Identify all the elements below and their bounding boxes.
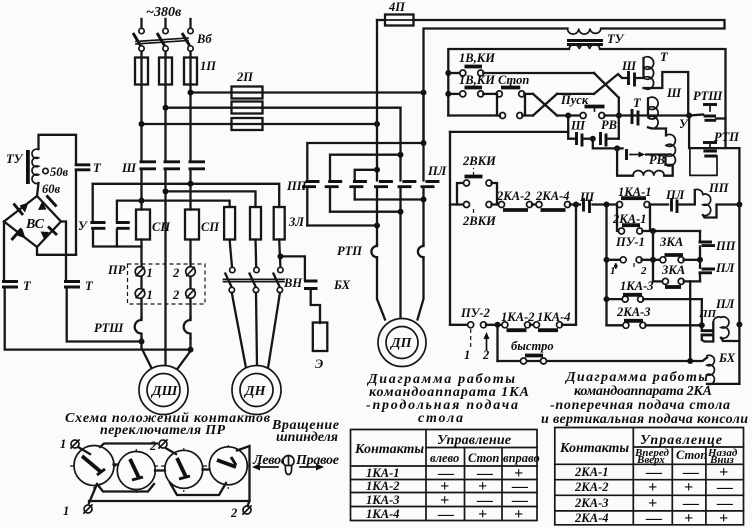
svg-text:ПП: ПП <box>698 308 717 320</box>
svg-text:2: 2 <box>230 506 237 520</box>
rung 2KA wire <box>450 203 464 205</box>
wire bystro drop <box>496 325 498 361</box>
right rail lower <box>738 203 740 384</box>
svg-text:Ш: Ш <box>666 86 682 100</box>
svg-text:2: 2 <box>482 348 489 362</box>
svg-text:ПУ-1: ПУ-1 <box>615 235 645 249</box>
svg-text:ПП: ПП <box>286 179 308 193</box>
wire vertical phaseB feed <box>399 108 401 181</box>
contact PL2 <box>398 182 417 319</box>
contact 3KA-2 <box>653 278 700 287</box>
coil PL <box>713 317 742 341</box>
svg-text:ДН: ДН <box>243 384 267 399</box>
transformer TU secondary <box>569 45 600 49</box>
wire H2 rail <box>330 155 401 181</box>
svg-text:1В,КИ: 1В,КИ <box>459 51 496 65</box>
svg-text:ВС: ВС <box>25 217 45 232</box>
svg-text:Ш: Ш <box>121 161 137 175</box>
lower left rail <box>449 132 451 325</box>
svg-text:1КА-3: 1КА-3 <box>366 493 399 507</box>
switch VN pole3 <box>273 267 283 292</box>
svg-text:1: 1 <box>60 437 66 451</box>
svg-text:Вб: Вб <box>196 32 212 46</box>
svg-text:—: — <box>645 510 662 527</box>
svg-text:ДП: ДП <box>389 336 413 351</box>
button PU-2 <box>450 322 502 350</box>
svg-text:Ш: Ш <box>621 59 637 73</box>
fuse 2P-1 <box>232 87 263 99</box>
contact 2KA-1 <box>617 205 700 235</box>
terminal 1 bottom <box>63 504 92 518</box>
svg-text:2П: 2П <box>236 70 254 84</box>
contact 3KA-1 <box>660 255 700 263</box>
control transformer TU2 top wire <box>39 135 77 164</box>
button PU-1 <box>607 257 661 270</box>
contact bystro <box>521 356 547 365</box>
svg-text:2ВКИ: 2ВКИ <box>462 214 497 228</box>
button Pusk <box>580 107 605 119</box>
svg-text:БХ: БХ <box>333 278 351 292</box>
switch VN pole1 <box>225 267 235 292</box>
control box bottom rail <box>448 114 581 116</box>
svg-text:4П: 4П <box>388 0 406 14</box>
svg-text:ПР: ПР <box>107 263 126 277</box>
svg-text:1П: 1П <box>200 59 217 73</box>
switch PR disc 4 <box>209 447 247 485</box>
table 2KA <box>555 428 744 528</box>
wire rung2 to X2 <box>557 93 594 95</box>
contact PL3 <box>421 182 440 245</box>
svg-text:ПЛ: ПЛ <box>715 261 735 275</box>
wire to motor DP left <box>377 258 385 320</box>
svg-text:БХ: БХ <box>718 351 736 365</box>
svg-text:2: 2 <box>172 266 179 280</box>
wire H1 rail <box>307 143 423 181</box>
thermal RTP heater2 <box>418 244 424 259</box>
wire H4 rail <box>355 198 424 200</box>
svg-text:ЗКА: ЗКА <box>661 263 685 277</box>
wire ZKA2 corner drop <box>689 281 691 361</box>
svg-text:РТШ: РТШ <box>693 89 723 103</box>
svg-text:ТУ: ТУ <box>607 32 625 46</box>
svg-text:РТП: РТП <box>714 130 740 144</box>
svg-text:Э: Э <box>315 357 323 371</box>
svg-text:2КА-4: 2КА-4 <box>535 189 569 203</box>
svg-text:1: 1 <box>464 348 470 362</box>
table 1KA <box>351 430 540 524</box>
title diagram 2KA <box>541 370 748 427</box>
contactor Sh main contact phase3 <box>189 162 206 210</box>
switch VN drops from resistors <box>230 240 281 268</box>
contact 1KA-1 <box>617 198 669 207</box>
control top rail <box>448 49 725 148</box>
svg-text:1КА-2: 1КА-2 <box>501 310 534 324</box>
svg-text:1: 1 <box>610 265 616 277</box>
resistor DN3 <box>274 207 285 240</box>
svg-text:ДШ: ДШ <box>150 384 179 399</box>
svg-text:2: 2 <box>172 288 179 302</box>
thermal RTSh heater2 <box>184 317 191 338</box>
wire phase col3 down <box>189 85 191 161</box>
switch PR crosshairs <box>70 445 250 493</box>
wire pusk line right <box>604 115 703 116</box>
svg-text:1: 1 <box>63 504 69 518</box>
contact 1VKI rung1 <box>448 67 594 77</box>
svg-text:+: + <box>514 506 523 523</box>
sub rail x606 <box>605 205 607 326</box>
contact Sh aux <box>584 198 590 213</box>
fuse 1P phase3 <box>184 58 197 85</box>
switch VB pole 3 <box>182 19 193 58</box>
motor DP <box>378 319 426 367</box>
bus line 1 <box>191 91 424 93</box>
svg-text:ПУ-2: ПУ-2 <box>460 306 490 320</box>
wire Hc feeder <box>142 201 230 207</box>
resistor DN2 <box>250 207 261 240</box>
svg-text:Управленце: Управленце <box>640 433 722 448</box>
coil RV <box>617 148 673 175</box>
switch PR disc 3 <box>165 450 203 488</box>
svg-text:РВ: РВ <box>601 118 617 132</box>
contactor Sh main contact phase2 <box>164 162 181 366</box>
svg-text:переключателя ПР: переключателя ПР <box>100 423 225 438</box>
bus line 3 <box>142 123 378 125</box>
svg-text:+: + <box>648 479 657 496</box>
wire X1 crossing <box>533 94 557 116</box>
contact Sh of ShRV rung <box>565 113 593 147</box>
core bar TU2 <box>26 150 30 184</box>
contact PR o1 top <box>135 266 153 280</box>
coil TU2 winding <box>32 149 38 183</box>
contact 2VKI upper <box>457 168 497 205</box>
wire line2 to transformer <box>424 29 568 144</box>
svg-text:+: + <box>684 510 693 527</box>
svg-text:ТУ: ТУ <box>6 152 24 166</box>
svg-text:1КА-4: 1КА-4 <box>537 310 570 324</box>
wire to motor DP right <box>418 258 424 320</box>
contact 2KA-2 <box>499 202 537 211</box>
terminal 2 top <box>149 439 167 453</box>
contact BKh brake <box>277 253 320 323</box>
contact RV of ShRV rung <box>590 132 619 147</box>
thermal contact RTSh <box>703 105 726 121</box>
motor DSh <box>139 366 188 415</box>
wire vert x618 <box>618 98 620 139</box>
wire bystro line <box>498 360 691 362</box>
motor DN <box>232 366 281 415</box>
fuse 1P phase1 <box>135 58 148 85</box>
button Stop NO bypass <box>497 94 525 119</box>
svg-text:1КА-4: 1КА-4 <box>366 507 399 521</box>
contact 1VKI rung2 <box>448 88 497 97</box>
contact 1KA-3 <box>607 295 702 302</box>
svg-text:Пуск: Пуск <box>560 93 589 107</box>
wire Ha feeder <box>93 184 280 207</box>
contact 2KA-4 <box>536 202 580 211</box>
contact 1KA-2 <box>502 322 534 330</box>
svg-text:быстро: быстро <box>511 339 554 353</box>
wire to RV branch <box>593 139 617 149</box>
switch VB link bar <box>136 38 188 42</box>
svg-text:2КА-2: 2КА-2 <box>574 480 608 494</box>
svg-text:ПП: ПП <box>715 239 737 253</box>
wire PR web <box>78 444 250 507</box>
resistor DN1 <box>224 207 235 240</box>
contactor Sh main contact phase1 <box>140 162 157 210</box>
contact pp small cap <box>701 323 714 342</box>
lower box top wire <box>450 131 568 133</box>
contact PR 2o bottom <box>172 288 195 302</box>
contact PP2 <box>325 182 343 212</box>
svg-text:+: + <box>478 506 487 523</box>
svg-text:У: У <box>679 117 689 131</box>
contact PP seal <box>697 231 715 263</box>
wire col1 through PR <box>140 240 142 319</box>
svg-text:Ш: Ш <box>570 119 586 133</box>
button Stop NC <box>496 83 533 97</box>
coil Sh <box>648 97 666 135</box>
svg-text:РТП: РТП <box>337 244 363 258</box>
contact PR 2o top <box>172 266 195 280</box>
screw symbol <box>283 456 294 475</box>
svg-text:1КА-3: 1КА-3 <box>620 279 653 293</box>
svg-text:Стоп: Стоп <box>676 448 707 462</box>
svg-text:2КА-1: 2КА-1 <box>612 212 646 226</box>
transformer TU core <box>567 41 603 45</box>
wire H3 rail <box>355 170 377 181</box>
contact U2 bypass branch <box>116 201 142 247</box>
svg-text:—: — <box>437 506 454 523</box>
svg-text:Управление: Управление <box>437 433 511 448</box>
wire phase col1 down <box>140 85 142 161</box>
wires VN to motor DN <box>232 293 280 368</box>
switch VN link <box>224 279 285 281</box>
fuse 4P <box>377 0 725 29</box>
wire brake2 to col3 <box>67 288 142 342</box>
svg-text:1КА-1: 1КА-1 <box>618 185 651 199</box>
svg-text:шпинделя: шпинделя <box>276 430 338 445</box>
rectifier VS bridge <box>4 196 61 248</box>
thermal RTP heater1 <box>371 244 377 259</box>
box bottom wire <box>37 247 76 255</box>
switch PR disc 1 <box>74 446 114 486</box>
contact T2 <box>632 109 638 126</box>
svg-text:2КА-1: 2КА-1 <box>574 465 608 479</box>
svg-text:1КА-1: 1КА-1 <box>366 466 399 480</box>
contact Sh seal-in <box>629 71 635 87</box>
wire H5 rail <box>330 211 401 213</box>
svg-text:2КА-3: 2КА-3 <box>574 496 608 510</box>
svg-text:2: 2 <box>149 439 156 453</box>
wire box right vertical lower <box>75 171 77 255</box>
terminal 2 bottom <box>230 506 251 520</box>
switch VN pole2 <box>250 267 260 292</box>
bus line 2 <box>166 107 401 109</box>
wires RTSh to motor DSh <box>142 338 191 372</box>
switch PR dashed box <box>128 264 206 304</box>
switch VB pole 1 <box>133 19 144 58</box>
contact 2KA-3 <box>607 321 705 329</box>
terminal 1 top <box>60 437 79 451</box>
contact T brake1 <box>2 282 18 288</box>
svg-text:2КА-3: 2КА-3 <box>616 305 650 319</box>
fuse 2P-3 <box>232 118 263 130</box>
wire H6 rail <box>307 224 377 226</box>
svg-text:вправо: вправо <box>503 451 540 465</box>
wire PL coil column <box>701 299 703 330</box>
wire rung continue <box>593 203 617 205</box>
contact U in wire x93 <box>90 184 117 247</box>
svg-text:1КА-2: 1КА-2 <box>366 479 399 493</box>
svg-text:Ш: Ш <box>579 190 595 204</box>
contact PL seal <box>699 260 716 282</box>
coil PP <box>680 189 743 217</box>
svg-text:Контакты: Контакты <box>559 441 629 456</box>
resistor SP1 <box>136 210 150 240</box>
svg-text:ПЛ: ПЛ <box>715 297 735 311</box>
wire phase col2 down <box>164 85 166 161</box>
contact T in right box wire <box>75 165 91 170</box>
svg-text:2: 2 <box>640 265 647 277</box>
thermal contact RTP <box>689 116 739 204</box>
wire bridge right vertex drop <box>61 222 66 281</box>
sub rail x653 <box>652 231 654 281</box>
wire vertical phaseC feed <box>376 20 378 181</box>
title diagram 1KA <box>366 372 529 426</box>
svg-text:1: 1 <box>147 288 153 302</box>
svg-text:и вертикальная подача консоли: и вертикальная подача консоли <box>541 412 748 427</box>
contact 1KA-4 <box>534 205 577 331</box>
wire vertical phaseA feed <box>422 93 424 181</box>
tap 50v <box>43 168 48 173</box>
svg-text:командоаппарата 2КА: командоаппарата 2КА <box>574 384 712 399</box>
contact PP1 <box>302 182 320 226</box>
svg-text:60в: 60в <box>42 182 61 196</box>
svg-text:ВН: ВН <box>283 276 303 290</box>
electromagnet E <box>313 323 328 352</box>
wire col3 through PR <box>189 240 191 319</box>
thermal RTSh heater1 <box>135 317 142 338</box>
svg-text:—: — <box>716 479 733 496</box>
svg-text:ПЛ: ПЛ <box>427 164 447 178</box>
svg-text:У: У <box>78 219 88 233</box>
contact PL aux <box>672 198 678 213</box>
svg-text:влево: влево <box>430 451 459 465</box>
svg-text:ПЛ: ПЛ <box>665 188 685 202</box>
contact RV timed <box>617 148 666 165</box>
svg-text:ПП: ПП <box>708 181 730 195</box>
svg-text:2КА-4: 2КА-4 <box>574 511 608 525</box>
wire bridge left vertex drop <box>3 222 5 281</box>
svg-text:~380в: ~380в <box>146 5 182 20</box>
coil T <box>637 57 689 116</box>
contact 2VKI lower <box>464 202 500 217</box>
fuse 1P phase2 <box>159 58 172 85</box>
svg-text:50в: 50в <box>50 165 69 179</box>
wire coil to bridge <box>37 183 39 196</box>
svg-text:Контакты: Контакты <box>354 442 424 457</box>
svg-text:1: 1 <box>147 266 153 280</box>
coil U <box>666 134 675 166</box>
svg-text:СП: СП <box>152 220 171 234</box>
svg-text:+: + <box>719 510 728 527</box>
svg-text:РВ: РВ <box>649 153 665 167</box>
fuse 2P-2 <box>232 102 263 114</box>
switch PR disc 2 <box>117 452 155 490</box>
contact T brake2 <box>64 282 80 288</box>
svg-text:-поперечная подача стола: -поперечная подача стола <box>550 398 730 413</box>
wire brake1 to col1 <box>5 288 191 350</box>
wire X2 crossing <box>594 73 627 98</box>
svg-text:СП: СП <box>201 220 220 234</box>
coil BKh <box>690 355 739 384</box>
svg-text:Стоп: Стоп <box>468 451 499 465</box>
svg-text:1В,КИ Стоп: 1В,КИ Стоп <box>459 73 529 87</box>
contact PL1 <box>374 182 393 245</box>
contact PR o1 bottom <box>135 288 153 302</box>
svg-text:ЗЛ: ЗЛ <box>288 215 304 229</box>
contact PP3 <box>349 182 367 200</box>
svg-text:+: + <box>684 479 693 496</box>
svg-text:ЗКА: ЗКА <box>659 235 683 249</box>
svg-text:2ВКИ: 2ВКИ <box>462 154 497 168</box>
resistor SP2 <box>185 210 199 240</box>
svg-text:РТШ: РТШ <box>94 321 124 335</box>
svg-text:Диаграмма работы: Диаграмма работы <box>564 370 708 385</box>
wire Hb feeder <box>166 191 256 207</box>
svg-text:2КА-2: 2КА-2 <box>496 189 530 203</box>
transformer TU primary <box>568 29 602 35</box>
switch VB pole 2 <box>157 19 168 58</box>
